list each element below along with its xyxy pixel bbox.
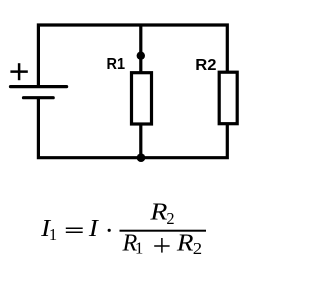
svg-text:R: R — [149, 199, 167, 226]
svg-text:2: 2 — [166, 209, 174, 228]
svg-text:I: I — [88, 215, 100, 242]
svg-text:R2: R2 — [195, 57, 216, 74]
svg-text:1: 1 — [135, 238, 144, 257]
svg-text:R1: R1 — [107, 56, 126, 73]
svg-text:R: R — [176, 230, 194, 257]
svg-text:2: 2 — [193, 239, 202, 258]
svg-text:1: 1 — [49, 225, 57, 244]
